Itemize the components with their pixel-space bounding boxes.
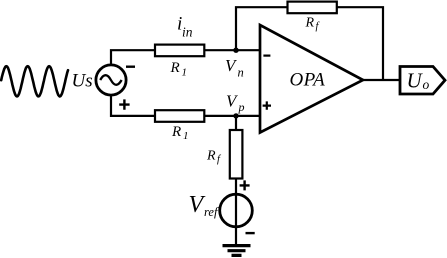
op-amp plus input sign xyxy=(263,101,271,109)
svg-text:f: f xyxy=(316,21,321,32)
node Vp junction dot xyxy=(233,113,238,118)
minus sign of source xyxy=(126,65,135,67)
plus sign of source xyxy=(119,99,129,109)
wire top rail R1 to node Vn xyxy=(202,49,260,51)
resistor R1 (bottom) xyxy=(155,110,204,122)
svg-text:V: V xyxy=(189,192,206,218)
svg-text:f: f xyxy=(217,154,222,165)
minus sign of Vref xyxy=(246,232,255,234)
svg-text:OPA: OPA xyxy=(290,69,326,90)
svg-text:R: R xyxy=(305,15,315,30)
wire op-amp output xyxy=(363,79,400,81)
plus sign of Vref xyxy=(240,180,250,190)
wire bottom rail R1 to node Vp xyxy=(202,115,260,117)
svg-text:R: R xyxy=(171,124,181,140)
wire feedback loop xyxy=(236,7,383,80)
svg-text:ref: ref xyxy=(204,205,219,219)
wire source to bottom rail xyxy=(111,95,157,116)
output tag Uo pentagon xyxy=(400,67,445,95)
svg-text:V: V xyxy=(225,56,238,75)
resistor R1 (top) xyxy=(155,45,204,57)
svg-text:1: 1 xyxy=(182,67,188,79)
svg-text:Us: Us xyxy=(72,71,93,92)
voltage source US circle xyxy=(96,65,126,95)
wire source to top rail xyxy=(111,50,157,65)
svg-text:o: o xyxy=(423,77,430,92)
svg-text:V: V xyxy=(226,92,239,111)
voltage source Vref circle xyxy=(220,194,253,227)
resistor Rf (feedback) xyxy=(288,2,337,14)
wire input sine squiggle xyxy=(1,66,68,96)
svg-text:n: n xyxy=(238,66,244,80)
node Vn junction dot xyxy=(233,48,238,53)
op-amp U1 triangle xyxy=(260,25,363,133)
ground xyxy=(223,246,251,256)
svg-text:R: R xyxy=(206,149,216,164)
op-amp minus input sign xyxy=(263,54,270,56)
resistor Rf (vertical) xyxy=(230,130,243,179)
wire Vp branch down through Vref to ground xyxy=(235,116,237,246)
svg-text:U: U xyxy=(407,68,424,92)
svg-text:in: in xyxy=(182,25,193,40)
svg-text:1: 1 xyxy=(183,130,189,142)
sine symbol inside source xyxy=(100,75,121,85)
svg-text:p: p xyxy=(238,100,245,114)
svg-text:R: R xyxy=(170,60,180,76)
